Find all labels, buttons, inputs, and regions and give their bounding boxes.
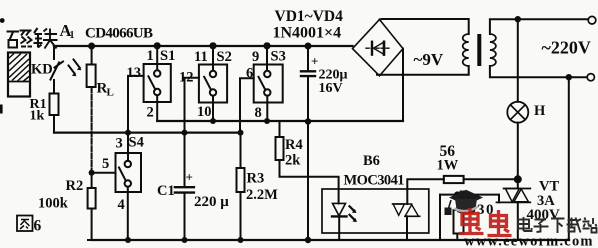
MOC LED emission arrows: [350, 206, 355, 220]
wire ground rail: [92, 239, 569, 241]
wire control bus: [54, 132, 241, 134]
node C2 top rail junction: [305, 43, 312, 50]
wire top supply rail: [54, 45, 353, 47]
svg-text:6: 6: [34, 218, 42, 235]
svg-text:3: 3: [116, 136, 123, 152]
svg-text:1W: 1W: [437, 158, 459, 174]
wire KD to R1: [53, 80, 55, 94]
resistor R4: [276, 137, 284, 160]
wire MOC LED cathode to ground: [338, 216, 340, 240]
svg-text:220 μ: 220 μ: [194, 194, 229, 210]
capacitor C1 plates: [175, 186, 194, 188]
wire R3 bottom: [240, 192, 242, 240]
svg-text:5: 5: [102, 156, 109, 172]
wire transformer primary bottom to 220V terminal: [490, 66, 587, 77]
wire bridge top to transformer secondary top: [380, 19, 469, 34]
bridge rectifier VD1-VD4 diamond: [353, 20, 404, 76]
svg-text:+: +: [186, 170, 193, 185]
wire S3 pin 9: [266, 46, 268, 71]
node right branch junction: [566, 74, 572, 80]
terminal ~220V line2: [587, 74, 594, 81]
wire S1 pin 1: [156, 46, 158, 71]
transformer T left winding: [463, 34, 469, 66]
wire S1 pin 2 down: [156, 95, 158, 121]
node 330 top junction: [454, 191, 460, 197]
stray dot top-left: [0, 18, 5, 23]
wire R2 to ground rail: [88, 209, 92, 241]
wire lamp branch vertical: [517, 19, 519, 102]
watermark red bug char 1: [459, 208, 484, 234]
node bus junction R3/pin6: [238, 130, 244, 136]
svg-text:CD4066UB: CD4066UB: [85, 26, 153, 42]
photoresistor RL: [87, 65, 96, 88]
wire S4 pin 5 control: [92, 172, 116, 174]
wire R4 bottom to MOC LED anode: [280, 160, 339, 203]
svg-text:~220V: ~220V: [542, 38, 591, 58]
svg-text:100k: 100k: [38, 196, 69, 212]
wire S4 pin 4 to ground: [127, 187, 129, 240]
wire S2 pin 12 control: [185, 78, 199, 133]
node MOC input ground junction: [305, 237, 311, 243]
S3 lever: [259, 77, 266, 90]
S1 lever: [148, 76, 155, 89]
svg-text:+: +: [311, 54, 318, 69]
S2 lever: [204, 77, 211, 90]
magnet body: [8, 53, 30, 97]
wire right branch down to ground rail: [568, 77, 570, 240]
svg-text:R4: R4: [285, 137, 303, 153]
wire 330 bottom: [456, 234, 458, 241]
node RL / S4 pin5 / R2 junction: [89, 170, 95, 176]
wire mid rail (DC minus): [157, 120, 403, 122]
watermark hat logo: [445, 190, 484, 215]
wire lamp to triac VT: [517, 123, 519, 189]
S4 contacts: [125, 161, 131, 167]
svg-text:C1: C1: [157, 183, 175, 199]
resistor R1: [50, 94, 59, 116]
svg-text:9: 9: [252, 49, 259, 65]
node RL top rail junction: [88, 43, 95, 50]
S3 contacts: [264, 71, 270, 77]
wire bridge right corner down: [402, 49, 404, 121]
wire 330 top: [456, 195, 458, 210]
svg-text:L: L: [107, 87, 114, 99]
triac VT: [497, 189, 531, 203]
capacitor C2 220u16V plates: [301, 70, 315, 72]
node bus junction C1/pin12: [182, 130, 188, 136]
wire R3 top: [240, 133, 242, 168]
svg-text:1: 1: [147, 48, 154, 64]
lamp H: [507, 102, 528, 123]
edge mark left: [0, 105, 3, 114]
terminal ~220V line1: [588, 16, 596, 24]
wire C1 top: [184, 133, 186, 186]
wire R1 to control bus: [53, 115, 55, 133]
wire C2 bottom through to ground: [307, 76, 309, 240]
svg-text:2k: 2k: [285, 153, 301, 169]
svg-text:1N4001×4: 1N4001×4: [273, 25, 342, 42]
wire R4 top: [279, 121, 281, 137]
magnet hatched half: [8, 54, 30, 82]
S4 lever: [119, 168, 126, 181]
wire S3 pin 6 control: [240, 78, 254, 132]
node R3 ground junction: [238, 237, 244, 243]
wire KD branch stub: [53, 46, 55, 59]
wire RL top: [91, 46, 93, 65]
svg-text:H: H: [534, 103, 546, 119]
wire C1 bottom: [184, 193, 186, 240]
node bus junction at x128: [125, 130, 131, 136]
reed switch KD: [51, 62, 64, 80]
svg-text:S4: S4: [129, 135, 144, 151]
label magnet chars (drawn strokes): [7, 28, 58, 49]
wire MOC triac top to 56 resistor: [407, 179, 444, 204]
node S4 pin4 ground junction: [125, 237, 131, 243]
node S1 pin1 rail junction: [154, 42, 161, 49]
svg-text:1k: 1k: [30, 109, 45, 124]
svg-text:8: 8: [255, 105, 262, 121]
node VT top junction: [514, 175, 522, 183]
wire 56 resistor to VT gate: [464, 178, 518, 180]
svg-text:10: 10: [197, 104, 212, 120]
optocoupler B6 MOC3041 box: [322, 189, 429, 233]
watermark site name chars (drawn strokes): [518, 217, 597, 233]
svg-text:2.2M: 2.2M: [246, 187, 278, 203]
MOC LED: [333, 203, 346, 215]
node S2 pin11 rail junction: [209, 42, 216, 49]
S2 contacts: [210, 71, 216, 77]
svg-text:11: 11: [194, 49, 208, 65]
node S3 pin9 rail junction: [263, 42, 270, 49]
svg-text:R2: R2: [66, 178, 84, 194]
wire C2 top: [307, 46, 309, 70]
wire S2 pin 11: [212, 46, 214, 71]
svg-text:1: 1: [70, 30, 75, 41]
svg-text:B6: B6: [363, 153, 380, 169]
node S2 pin10 junction: [210, 118, 216, 124]
analog switch S1 box: [144, 64, 171, 102]
wire R2 top: [91, 173, 93, 188]
wire VT bottom to ground rail: [517, 202, 519, 240]
label figure 图6 (drawn strokes): [17, 216, 33, 232]
analog switch S4 box: [116, 153, 142, 192]
wire S2 pin 10 down: [212, 96, 214, 121]
svg-text:12: 12: [179, 70, 194, 86]
svg-text:6: 6: [246, 66, 253, 82]
node S3 pin8 junction: [264, 118, 270, 124]
resistor 56 1W: [444, 176, 464, 183]
svg-text:MOC3041: MOC3041: [344, 173, 405, 189]
watermark red bug char 2: [488, 210, 512, 236]
wire S3 pin 8 down: [266, 96, 268, 121]
wire transformer primary top to 220V terminal: [490, 19, 588, 34]
light arrows onto RL: [69, 60, 80, 74]
analog switch S3 box: [254, 65, 283, 103]
svg-text:4: 4: [118, 197, 125, 213]
svg-text:16V: 16V: [319, 81, 343, 96]
transformer T core: [477, 34, 481, 66]
svg-text:VD1~VD4: VD1~VD4: [275, 8, 344, 25]
wire RL bottom (dashed scan): [91, 87, 93, 173]
svg-text:S2: S2: [217, 49, 232, 65]
resistor 330: [454, 210, 464, 234]
S1 contacts: [154, 70, 160, 76]
bridge diode symbol: [366, 47, 390, 49]
resistor R2: [88, 188, 96, 209]
transformer T right winding: [490, 34, 496, 66]
wire pin 13 / S4 pin 3 vertical: [128, 76, 144, 161]
svg-text:S3: S3: [271, 49, 286, 65]
analog switch S2 box: [199, 65, 227, 103]
node lamp branch junction: [515, 16, 521, 22]
wire MOC triac bottom to ground: [406, 216, 408, 240]
wire gate node left vertical to ground: [439, 195, 441, 240]
wire bridge bottom to transformer secondary bottom: [377, 66, 469, 75]
svg-text:KD: KD: [31, 62, 53, 78]
wire gate node horizontal: [440, 195, 499, 203]
node C2 bottom junction: [305, 118, 311, 124]
MOC photo-triac: [393, 204, 420, 216]
svg-text:2: 2: [147, 105, 154, 121]
svg-text:R3: R3: [247, 171, 265, 187]
svg-text:S1: S1: [160, 48, 175, 64]
node C1 ground junction: [182, 237, 188, 243]
svg-text:~9V: ~9V: [414, 50, 444, 69]
svg-text:www.eeworm.com: www.eeworm.com: [464, 234, 593, 248]
svg-text:13: 13: [127, 65, 142, 81]
resistor R3: [237, 168, 245, 192]
